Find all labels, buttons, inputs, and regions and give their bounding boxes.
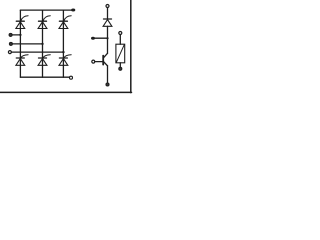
thyristor V3 (top, leg 3) <box>59 16 71 29</box>
wire: transistor emitter lead <box>107 66 109 84</box>
wire: bridge leg 3 <box>62 10 64 77</box>
wire: AC input line L3 <box>11 51 63 53</box>
wire: bridge leg 1 <box>19 10 21 77</box>
node: junction leg3/L3 <box>62 51 64 53</box>
node: transistor base terminal <box>92 60 95 63</box>
transistor V8 <box>103 53 107 66</box>
node: junction stub/diode branch <box>106 37 108 39</box>
thyristor V2 (top, leg 2) <box>38 16 50 29</box>
node: DC link stub dot <box>91 37 95 40</box>
thyristor V5 (bottom, leg 2) <box>38 55 50 66</box>
node: AC input terminal L2 <box>9 42 12 45</box>
thyristor V4 (bottom, leg 1) <box>16 55 28 66</box>
resistor R1 <box>116 44 125 63</box>
node: AC input terminal L1 <box>9 33 12 36</box>
node: junction leg2/L2 <box>41 43 43 45</box>
wire: DC link stub <box>93 37 108 39</box>
wire: DC+ top rail <box>20 9 71 11</box>
wire: resistor bottom lead <box>119 63 121 68</box>
thyristor V1 (top, leg 1) <box>16 16 28 29</box>
node: bottom rail terminal <box>70 76 73 79</box>
node: top rail end dot <box>71 9 75 12</box>
wire: diode cathode down to transistor collector <box>107 26 109 53</box>
node: emitter bottom terminal <box>106 83 109 86</box>
thyristor V6 (bottom, leg 3) <box>59 55 71 66</box>
wire: diode anode lead <box>107 8 109 20</box>
wire: AC input line L2 <box>12 43 42 45</box>
node: resistor top terminal <box>119 32 122 35</box>
wire: bridge leg 2 <box>42 10 44 77</box>
node: AC input terminal L3 <box>8 51 11 54</box>
wire: transistor base lead <box>95 61 103 63</box>
node: junction leg1/L1 <box>19 34 21 36</box>
node: diode top terminal <box>106 5 109 8</box>
wire: resistor top lead <box>119 35 121 45</box>
wire: AC input line L1 <box>12 34 20 36</box>
wire: DC- bottom rail <box>20 76 69 78</box>
diode V7 <box>103 19 112 26</box>
node: resistor bottom terminal <box>119 67 122 70</box>
